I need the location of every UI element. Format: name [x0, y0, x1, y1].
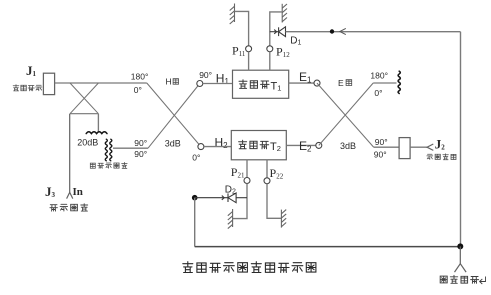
svg-text:H: H	[166, 77, 172, 87]
magic tee T1 box	[233, 70, 289, 98]
E-plane matched load squiggle	[398, 71, 400, 93]
port P12 circle	[267, 46, 273, 52]
connector J1 body	[43, 73, 54, 94]
wire H1 to T1	[203, 83, 233, 85]
wire P12 to T1	[269, 52, 271, 70]
svg-text:P12: P12	[276, 45, 290, 60]
magic tee T2 box	[231, 131, 286, 160]
svg-text:0°: 0°	[374, 88, 382, 98]
wire left control vertical	[194, 198, 196, 247]
wire ground to P12	[270, 12, 282, 46]
svg-text:3dB: 3dB	[165, 139, 181, 149]
J3 port fork	[67, 192, 73, 198]
directional coupler X1 under main line	[70, 83, 98, 114]
medium power load squiggles	[105, 139, 107, 161]
svg-text:H2: H2	[215, 136, 229, 151]
label 中功率负载 (medium power load)	[90, 162, 127, 168]
T1 box text 变态魔T1	[239, 80, 269, 89]
svg-text:In: In	[73, 186, 83, 198]
svg-text:D1: D1	[290, 36, 301, 47]
wire coupler to attenuator	[97, 114, 99, 132]
wire bottom control rail	[195, 246, 461, 248]
wire T2 to P21	[246, 160, 248, 178]
port E1 circle	[314, 80, 320, 86]
svg-text:E1: E1	[299, 70, 312, 85]
port P11 circle	[246, 46, 252, 52]
svg-text:0°: 0°	[192, 152, 200, 162]
wire load to H-plane hybrid	[113, 147, 148, 149]
port P21 circle	[244, 178, 250, 184]
current direction arrow	[340, 28, 346, 34]
wire P21 down to ground	[233, 184, 247, 219]
wire J2 body to fork	[410, 146, 427, 148]
svg-text:0°: 0°	[134, 85, 142, 95]
svg-text:T1: T1	[271, 81, 282, 93]
svg-text:T2: T2	[270, 141, 281, 153]
svg-text:P22: P22	[270, 166, 284, 181]
connector J2 body	[399, 138, 410, 159]
wire ground to P11	[235, 11, 249, 45]
junction dot control node	[457, 243, 463, 249]
svg-text:J1: J1	[26, 63, 37, 78]
wire to J3 test port	[69, 114, 71, 193]
svg-text:J2: J2	[435, 137, 446, 152]
svg-text:D2: D2	[225, 185, 236, 196]
svg-text:E2: E2	[299, 139, 312, 154]
control voltage stub	[459, 246, 461, 263]
ground for P22	[281, 210, 286, 228]
return arrow glyph	[480, 277, 486, 285]
svg-text:180°: 180°	[131, 72, 149, 82]
H-plane 3dB hybrid X	[147, 83, 201, 148]
ground for P12	[282, 4, 287, 23]
wire P22 down to ground	[267, 184, 281, 219]
control voltage fork	[455, 264, 467, 272]
E-plane 3dB hybrid X	[317, 83, 374, 147]
wire T2 to P22	[266, 160, 268, 178]
wire T1 to E1	[289, 82, 314, 84]
port E2 circle	[316, 142, 322, 148]
title 保护器开关原理示意图	[183, 262, 316, 273]
junction dot on top control wire	[330, 29, 334, 33]
svg-text:180°: 180°	[370, 70, 388, 80]
label 控制电压 (control voltage)	[440, 275, 478, 283]
wire H2 to T2	[204, 146, 231, 148]
wire hybrid to J2	[374, 146, 400, 148]
wire right control vertical	[460, 32, 462, 247]
diode D1	[270, 27, 286, 37]
svg-text:90°: 90°	[134, 149, 147, 159]
T2 box text 变态魔T2	[239, 140, 269, 149]
ground for P21	[228, 209, 233, 229]
label 信号输入 (signal input)	[13, 85, 42, 91]
ground for P11	[230, 4, 235, 25]
svg-text:90°: 90°	[375, 137, 388, 147]
svg-text:3dB: 3dB	[340, 141, 356, 151]
J2 port fork	[427, 144, 433, 150]
wire hybrid to E load	[373, 82, 396, 84]
junction dot left control	[192, 195, 198, 201]
port H1 circle	[197, 81, 203, 87]
port H2 circle	[198, 144, 204, 150]
svg-text:20dB: 20dB	[77, 138, 98, 148]
svg-text:E: E	[338, 78, 344, 88]
diode D2	[195, 193, 247, 203]
attenuator 20dB squiggle	[86, 132, 107, 134]
label 信号输出 (signal output)	[427, 154, 456, 160]
port P22 circle	[264, 178, 270, 184]
svg-text:90°: 90°	[134, 138, 147, 148]
wire T2 to E2	[286, 144, 316, 146]
label 测试信号 (test signal)	[50, 204, 88, 211]
svg-text:P21: P21	[231, 165, 245, 180]
svg-text:90°: 90°	[374, 149, 387, 159]
wire D1 to control rail	[286, 31, 461, 33]
wire J1 to H-plane corner	[55, 82, 147, 84]
svg-text:J3: J3	[45, 184, 56, 199]
wire P11 to T1	[248, 52, 250, 70]
svg-text:90°: 90°	[199, 70, 212, 80]
svg-text:P11: P11	[232, 44, 246, 59]
